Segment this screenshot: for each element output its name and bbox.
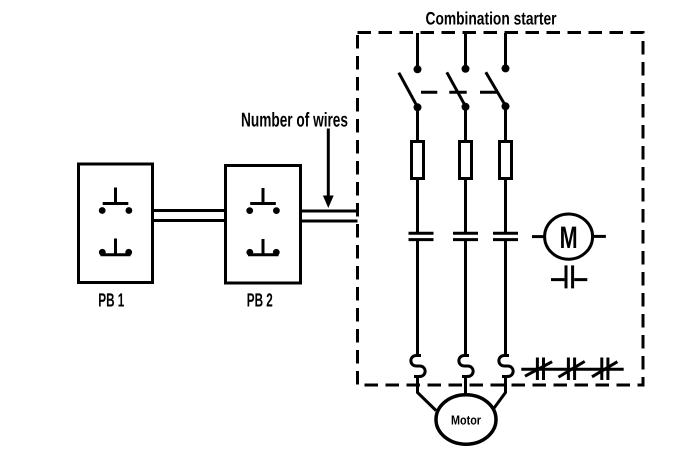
wire contact2 to heater2 (464, 240, 467, 356)
svg-text:Number of wires: Number of wires (241, 110, 348, 132)
overload contacts line (521, 368, 623, 371)
overload heater OL3 (499, 356, 513, 377)
wire heater3 to motor (493, 377, 506, 410)
conduit wire PB2-starter (double line) (301, 211, 358, 221)
disconnect switch 3 (486, 64, 510, 110)
combination starter dashed enclosure (358, 33, 644, 386)
PB1 NO pushbutton (99, 188, 132, 214)
svg-text:Motor: Motor (451, 413, 481, 428)
svg-text:Combination starter: Combination starter (426, 9, 557, 29)
phase line 2 top wire (464, 33, 467, 66)
disconnect switch 1 (399, 65, 422, 111)
wire fuse2 to contact2 (464, 179, 467, 234)
PB1 NC pushbutton (99, 239, 132, 256)
coil M stub left (532, 235, 545, 238)
phase line 1 top wire (416, 33, 419, 66)
wire switch3 to fuse3 (504, 106, 507, 142)
contactor contact M3 (493, 233, 518, 239)
conduit wire PB1-PB2 (double line) (153, 211, 226, 221)
PB2 NC pushbutton (246, 239, 279, 256)
wire fuse1 to contact1 (416, 179, 419, 234)
fuse F2 (460, 142, 472, 179)
coil M stub right (593, 235, 606, 238)
wire fuse3 to contact3 (504, 179, 507, 234)
motor (436, 395, 496, 444)
wire switch1 to fuse1 (416, 107, 419, 142)
wire switch2 to fuse2 (464, 106, 467, 141)
overload contact OL1 (525, 358, 552, 381)
fuse F1 (412, 142, 424, 179)
arrow to conduit (323, 129, 334, 209)
disconnect switch 2 (447, 65, 470, 111)
pushbutton station PB 2 box (226, 166, 301, 284)
PB2 NO pushbutton (246, 188, 279, 214)
starter coil M (545, 214, 593, 259)
svg-text:PB 1: PB 1 (98, 291, 124, 312)
wire contact3 to heater3 (504, 240, 507, 356)
fuse F3 (500, 142, 512, 179)
wire heater1 to motor (418, 377, 437, 411)
overload heater OL2 (459, 356, 473, 377)
svg-text:M: M (560, 220, 578, 255)
overload heater OL1 (411, 356, 425, 377)
contactor contact M2 (453, 233, 478, 239)
overload contact OL3 (592, 358, 617, 381)
phase line 3 top wire (504, 33, 507, 66)
overload contact OL2 (559, 358, 585, 381)
svg-text:PB 2: PB 2 (247, 291, 273, 312)
switch mechanical linkage dashes (421, 91, 498, 94)
contactor contact M1 (409, 233, 434, 239)
M auxiliary holding contact (551, 265, 587, 288)
pushbutton station PB 1 box (79, 164, 153, 283)
wire contact1 to heater1 (416, 240, 419, 356)
wire heater2 to motor (464, 377, 467, 396)
